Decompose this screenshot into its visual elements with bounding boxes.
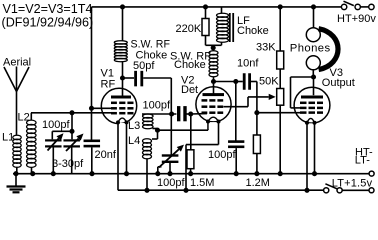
- svg-text:Aerial: Aerial: [3, 57, 31, 69]
- svg-text:50K: 50K: [259, 75, 279, 87]
- svg-text:1.5M: 1.5M: [190, 177, 214, 189]
- svg-text:V1=V2=V3=1T4: V1=V2=V3=1T4: [3, 2, 93, 16]
- svg-text:Choke: Choke: [174, 59, 206, 71]
- svg-text:L1: L1: [2, 132, 14, 144]
- svg-text:Choke: Choke: [237, 25, 269, 37]
- svg-text:100pf: 100pf: [208, 149, 236, 161]
- svg-text:220K: 220K: [176, 23, 202, 35]
- svg-text:50pf: 50pf: [133, 60, 155, 72]
- svg-text:HT+90v: HT+90v: [337, 13, 376, 25]
- svg-text:Det: Det: [181, 84, 198, 96]
- svg-text:L2: L2: [18, 111, 30, 123]
- svg-text:20nf: 20nf: [95, 149, 117, 161]
- svg-text:100pf: 100pf: [157, 177, 185, 189]
- svg-text:LT+1.5v: LT+1.5v: [332, 177, 373, 189]
- svg-text:1.2M: 1.2M: [246, 177, 270, 189]
- svg-text:100pf: 100pf: [143, 100, 171, 112]
- svg-text:100pf: 100pf: [42, 119, 70, 131]
- svg-text:L4: L4: [128, 135, 140, 147]
- svg-text:(DF91/92/94/96): (DF91/92/94/96): [2, 16, 94, 30]
- svg-text:33K: 33K: [256, 42, 276, 54]
- svg-text:10nf: 10nf: [237, 58, 259, 70]
- svg-text:Output: Output: [322, 77, 355, 89]
- svg-text:LT-: LT-: [355, 155, 370, 167]
- svg-text:L3: L3: [128, 120, 140, 132]
- svg-text:Phones: Phones: [290, 42, 331, 54]
- svg-text:3-30pf: 3-30pf: [52, 158, 84, 170]
- svg-text:RF: RF: [101, 79, 116, 91]
